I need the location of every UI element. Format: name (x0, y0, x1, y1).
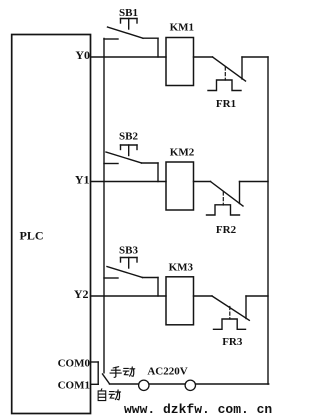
svg-text:FR3: FR3 (222, 336, 243, 348)
svg-text:COM1: COM1 (58, 380, 90, 392)
svg-text:Y2: Y2 (74, 287, 89, 301)
svg-text:COM0: COM0 (58, 357, 91, 369)
svg-text:KM2: KM2 (170, 147, 195, 159)
svg-text:FR1: FR1 (216, 98, 236, 110)
svg-text:FR2: FR2 (216, 224, 237, 236)
svg-text:SB3: SB3 (119, 245, 138, 257)
svg-text:AC220V: AC220V (147, 366, 187, 378)
svg-text:Y0: Y0 (75, 48, 90, 62)
svg-text:KM1: KM1 (170, 22, 194, 34)
svg-text:www. dzkfw. com. cn: www. dzkfw. com. cn (124, 402, 272, 417)
svg-text:SB1: SB1 (119, 7, 138, 19)
svg-text:Y1: Y1 (75, 173, 90, 187)
svg-text:KM3: KM3 (169, 262, 194, 274)
svg-text:PLC: PLC (20, 229, 44, 243)
svg-text:SB2: SB2 (119, 131, 138, 143)
